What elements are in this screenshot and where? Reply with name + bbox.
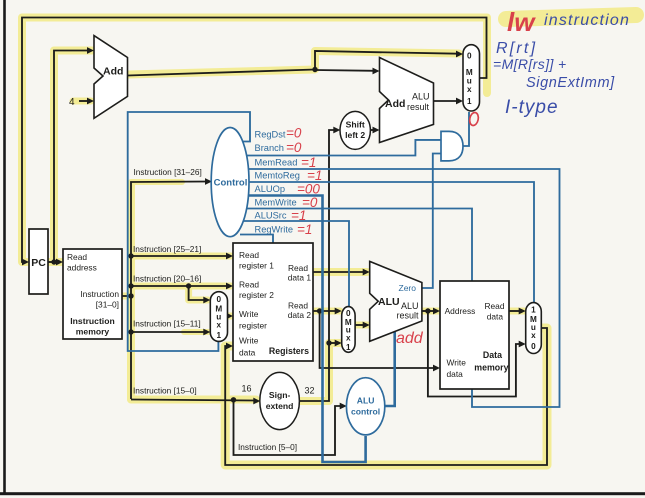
svg-text:ALU: ALU bbox=[357, 396, 375, 406]
svg-text:I-type: I-type bbox=[505, 97, 559, 118]
svg-text:Address: Address bbox=[445, 306, 476, 316]
frame: bottom border bbox=[0, 492, 645, 495]
svg-text:Instruction [5–0]: Instruction [5–0] bbox=[238, 442, 297, 452]
svg-text:data 2: data 2 bbox=[288, 310, 312, 320]
svg-text:data: data bbox=[487, 312, 504, 322]
svg-text:Instruction: Instruction bbox=[80, 289, 119, 299]
svg-text:result: result bbox=[397, 311, 420, 321]
svg-text:x: x bbox=[467, 85, 472, 94]
ALU main bbox=[370, 261, 422, 341]
wire: instruction bus bbox=[122, 182, 208, 400]
svg-text:result: result bbox=[407, 102, 430, 112]
node: PC out split bbox=[51, 259, 56, 264]
wire: write-reg mux output to write register bbox=[228, 315, 230, 317]
wire: Branch control signal to AND gate bbox=[240, 140, 441, 156]
node: sign-extend out branch bbox=[326, 340, 331, 345]
svg-text:1: 1 bbox=[217, 331, 222, 340]
oval: ALU control bbox=[346, 378, 384, 435]
adder Add (PC+4) bbox=[94, 36, 128, 119]
wire: data memory read data to right mux 1 bbox=[509, 310, 521, 312]
svg-text:4: 4 bbox=[69, 97, 75, 108]
highlight: PC feedback loop bbox=[22, 18, 487, 263]
register PC bbox=[29, 229, 48, 294]
svg-text:x: x bbox=[346, 334, 351, 343]
svg-text:Read: Read bbox=[239, 280, 259, 290]
svg-text:register 2: register 2 bbox=[239, 290, 274, 300]
svg-text:Branch: Branch bbox=[255, 143, 284, 153]
wire: MemtoReg control signal to right mux select bbox=[240, 182, 534, 303]
wire: branch adder result to mux input 1 bbox=[434, 100, 460, 102]
svg-text:Write: Write bbox=[447, 358, 467, 368]
mux: write register select (RegDst) bbox=[210, 292, 227, 342]
highlight: read data 1 to ALU bbox=[313, 268, 367, 276]
svg-text:Sign-: Sign- bbox=[269, 390, 291, 400]
svg-text:Control: Control bbox=[214, 178, 248, 189]
wire: Instruction 25-21 to read register 1 bbox=[131, 255, 229, 257]
oval: sign-extend bbox=[260, 372, 300, 429]
svg-text:x: x bbox=[531, 331, 536, 340]
svg-text:0: 0 bbox=[217, 295, 222, 304]
memory: data memory box bbox=[440, 281, 509, 389]
svg-text:Instruction [31–26]: Instruction [31–26] bbox=[134, 167, 202, 177]
svg-text:ALUOp: ALUOp bbox=[255, 184, 286, 194]
wire: read data 2 to data memory write data bbox=[320, 311, 435, 368]
wire: ALU control to ALU bbox=[385, 332, 395, 406]
node: PC+4 split bbox=[312, 67, 317, 72]
svg-text:Registers: Registers bbox=[269, 346, 309, 356]
highlight: ALU result to data memory bbox=[422, 308, 439, 315]
wire: PC feedback loop from branch mux output bbox=[22, 18, 487, 263]
wire: Instruction 5-0 to ALU control bbox=[234, 400, 343, 455]
mux: MemtoReg select bbox=[526, 303, 542, 354]
svg-text:Add: Add bbox=[385, 98, 405, 110]
svg-text:0: 0 bbox=[346, 309, 351, 318]
svg-text:Instruction [25–21]: Instruction [25–21] bbox=[133, 244, 201, 254]
highlight: Instruction 20-16 and mux branch bbox=[131, 286, 231, 300]
wire: 4 into Add bbox=[79, 100, 90, 102]
highlight: 4 into Add bbox=[73, 98, 91, 105]
wire: PC+4 to branch mux input 0 bbox=[315, 51, 458, 70]
wire: read data 1 to ALU bbox=[313, 271, 365, 273]
svg-text:Read: Read bbox=[239, 250, 259, 260]
svg-text:ALU: ALU bbox=[401, 301, 419, 311]
svg-text:address: address bbox=[67, 263, 97, 273]
svg-text:Instruction [15–0]: Instruction [15–0] bbox=[133, 386, 197, 396]
wire: Instruction 20-16 to read register 2 bbox=[131, 285, 229, 287]
svg-text:0: 0 bbox=[467, 52, 472, 61]
svg-text:extend: extend bbox=[266, 401, 294, 411]
highlight: Instruction 31-26 bbox=[131, 179, 182, 185]
svg-text:SignExtImm]: SignExtImm] bbox=[526, 75, 615, 91]
svg-text:Instruction: Instruction bbox=[70, 316, 114, 326]
wire: sign-extend output bbox=[300, 130, 336, 401]
svg-text:1: 1 bbox=[346, 343, 351, 352]
gate AND (branch) bbox=[441, 131, 463, 161]
wire: RegDst control signal bbox=[128, 112, 250, 351]
highlight: Instruction 15-11 partial bbox=[184, 329, 208, 335]
wire: Instruction 20-16 branch to write-reg mux 0 bbox=[189, 286, 206, 300]
svg-text:Read: Read bbox=[484, 301, 504, 311]
wire: read data 2 to ALUSrc mux 0 bbox=[313, 310, 337, 312]
svg-text:Zero: Zero bbox=[399, 283, 417, 293]
svg-text:data 1: data 1 bbox=[288, 273, 312, 283]
adder Add ALU result (branch target) bbox=[380, 58, 434, 143]
node: instruction memory output bbox=[128, 293, 133, 298]
wire: Zero flag to AND gate bbox=[422, 154, 441, 289]
mux: ALUSrc select bbox=[342, 307, 355, 353]
control unit oval bbox=[211, 128, 249, 237]
wire: ALU result bypass to right mux 0 bbox=[428, 311, 521, 397]
svg-text:Instruction [20–16]: Instruction [20–16] bbox=[133, 274, 201, 284]
wire: Instruction 15-11 to write-reg mux 1 bbox=[131, 331, 206, 333]
wire: MemWrite control signal to data memory bbox=[240, 209, 472, 282]
svg-text:R[rt]: R[rt] bbox=[496, 40, 537, 57]
svg-text:ALU: ALU bbox=[412, 92, 430, 102]
mux: branch/PC+4 select bbox=[463, 45, 480, 111]
wire: ALUOp control signal to ALU control bbox=[240, 196, 366, 463]
svg-text:0: 0 bbox=[531, 342, 536, 351]
wire: AND gate output to branch mux select bbox=[463, 112, 469, 146]
svg-text:1: 1 bbox=[467, 97, 472, 106]
svg-text:data: data bbox=[447, 369, 464, 379]
wire: Instruction 15-0 to sign-extend bbox=[131, 400, 256, 401]
highlight: writeback loop bbox=[225, 328, 547, 465]
svg-text:=0: =0 bbox=[286, 140, 302, 155]
svg-text:data: data bbox=[239, 348, 256, 358]
svg-text:add: add bbox=[396, 330, 424, 347]
svg-text:PC: PC bbox=[31, 257, 46, 269]
oval: shift left 2 bbox=[340, 111, 370, 149]
slash: 32-bit width mark bbox=[305, 396, 312, 406]
svg-text:=1: =1 bbox=[297, 222, 312, 237]
memory: instruction memory box bbox=[63, 249, 122, 339]
svg-text:32: 32 bbox=[305, 386, 315, 396]
highlight: instruction bus vertical bbox=[122, 293, 131, 300]
svg-text:Add: Add bbox=[103, 66, 123, 78]
wire: ALUSrc control signal to mux select bbox=[240, 221, 349, 307]
svg-text:=0: =0 bbox=[286, 126, 302, 141]
svg-text:1: 1 bbox=[531, 306, 536, 315]
wire: MemRead control signal bbox=[240, 169, 560, 407]
svg-text:16: 16 bbox=[242, 384, 252, 394]
svg-text:Write: Write bbox=[239, 309, 259, 319]
wire: PC up to Add bbox=[54, 51, 90, 263]
svg-text:register 1: register 1 bbox=[239, 261, 274, 271]
svg-text:MemtoReg: MemtoReg bbox=[255, 171, 300, 181]
wire: PC+4 to branch adder bbox=[315, 69, 375, 72]
wire: ALU result to data memory address bbox=[422, 310, 435, 312]
svg-text:register: register bbox=[239, 321, 267, 331]
svg-text:MemRead: MemRead bbox=[255, 157, 298, 167]
svg-text:Read: Read bbox=[288, 263, 308, 273]
wire: Add output PC+4 bbox=[128, 70, 316, 76]
highlight: read data to mux bbox=[509, 308, 524, 315]
highlight: PC to instruction memory / Add bbox=[48, 51, 92, 263]
svg-text:ALU: ALU bbox=[378, 296, 400, 308]
highlight: read data 2 to mux bbox=[313, 308, 340, 315]
svg-text:instruction: instruction bbox=[544, 12, 630, 29]
svg-text:left 2: left 2 bbox=[345, 130, 365, 140]
wire: writeback to register write data bbox=[225, 328, 547, 465]
svg-text:RegWrite: RegWrite bbox=[255, 224, 294, 234]
frame: left border bbox=[3, 0, 6, 494]
svg-text:memory: memory bbox=[76, 327, 110, 337]
highlight: sign-extend out to ALUSrc mux bbox=[300, 343, 340, 401]
svg-text:[31–0]: [31–0] bbox=[96, 300, 119, 310]
highlight: ALUSrc mux to ALU bbox=[355, 322, 368, 329]
annotation: 0 below branch mux (red) bbox=[469, 112, 480, 127]
svg-text:lw: lw bbox=[507, 7, 536, 37]
slash: 16-bit width mark bbox=[246, 395, 253, 405]
wire: shift left 2 to branch adder bbox=[370, 129, 375, 131]
svg-text:Data: Data bbox=[483, 350, 502, 360]
svg-text:Write: Write bbox=[239, 336, 259, 346]
wire: sign-extend branch to ALUSrc mux 1 bbox=[329, 342, 337, 344]
wire: PC out to instruction memory bbox=[48, 261, 60, 263]
svg-text:Shift: Shift bbox=[346, 120, 365, 130]
svg-text:Read: Read bbox=[67, 252, 87, 262]
wire: RegWrite control signal to registers bbox=[240, 235, 273, 244]
svg-text:=1: =1 bbox=[291, 208, 306, 223]
highlight: lw instruction text band bbox=[506, 15, 636, 19]
svg-text:Read: Read bbox=[288, 301, 308, 311]
svg-text:RegDst: RegDst bbox=[255, 129, 286, 139]
wire: ALUSrc mux output to ALU bbox=[355, 324, 365, 326]
highlight: PC+4 to branch mux bbox=[128, 51, 459, 75]
svg-text:control: control bbox=[351, 407, 380, 417]
svg-text:MemWrite: MemWrite bbox=[255, 198, 297, 208]
svg-text:Instruction [15–11]: Instruction [15–11] bbox=[133, 319, 201, 329]
highlight: Instruction 25-21 bbox=[131, 253, 231, 260]
highlight: write register mux output bbox=[222, 313, 232, 320]
svg-text:ALUSrc: ALUSrc bbox=[255, 211, 287, 221]
svg-text:x: x bbox=[217, 321, 222, 330]
svg-text:=M[R[rs]] +: =M[R[rs]] + bbox=[493, 56, 567, 72]
registers box bbox=[233, 243, 313, 361]
svg-text:memory: memory bbox=[474, 363, 508, 373]
highlight: Instruction 15-0 to sign-extend bbox=[131, 396, 256, 404]
